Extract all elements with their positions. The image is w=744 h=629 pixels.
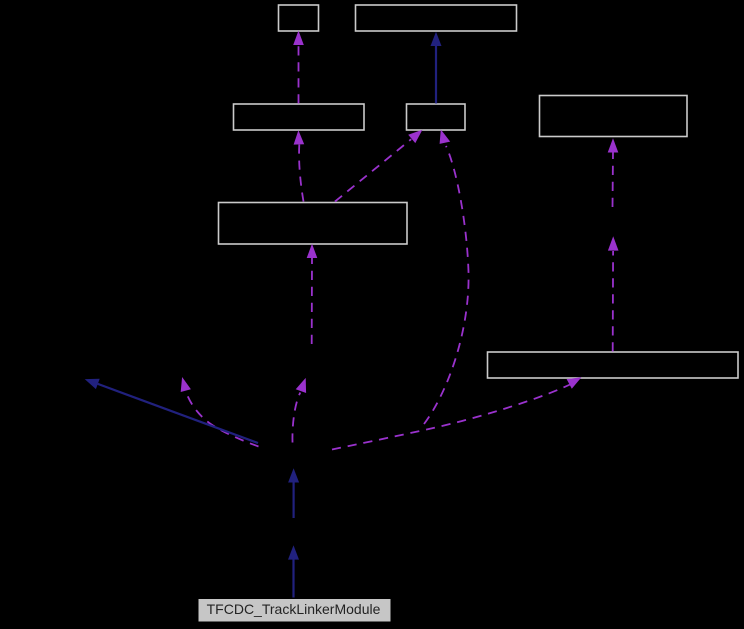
- edge hidden row4 to F (dashed): [311, 258, 313, 344]
- node G (row4 right wide box): [488, 352, 739, 378]
- svg-text:TFCDC_TrackLinkerModule: TFCDC_TrackLinkerModule: [207, 601, 381, 617]
- edge hub to G (long dashed shallow curve): [332, 385, 570, 450]
- node C (row2 left box): [234, 104, 365, 130]
- arrowhead H to hidden row6: [288, 545, 299, 559]
- edge hidden row3 to E (dashed): [612, 153, 615, 208]
- arrowhead hidden row3 to E: [608, 138, 619, 152]
- arrowhead G to hidden row3: [608, 236, 619, 250]
- edge C to A (dashed): [298, 45, 300, 104]
- edge F to D (dashed diagonal): [335, 139, 411, 201]
- arrowhead hub to D: [440, 130, 451, 144]
- arrowhead hidden row6 to hub: [288, 468, 299, 482]
- node E (row2 right tall box): [540, 96, 688, 137]
- arrowhead hub to G: [567, 377, 582, 389]
- node B (top wide box): [356, 5, 517, 31]
- node D (row2 middle box): [407, 104, 466, 130]
- edge D to B (solid inheritance): [435, 45, 437, 104]
- arrowhead C to A: [293, 31, 304, 45]
- edge G to hidden row3 node (dashed): [612, 251, 614, 352]
- edge hidden row6 to hub (solid): [293, 482, 295, 518]
- node F (row3 wide box): [219, 203, 408, 245]
- edge hub to D (long dashed curve right): [424, 146, 469, 424]
- arrowhead F to C: [294, 130, 305, 144]
- edge hub to hidden row4-left (dashed curve): [186, 392, 259, 447]
- node A (top small box): [279, 5, 319, 31]
- arrowhead F to D: [408, 130, 422, 143]
- arrowhead hub to hidden row4: [296, 378, 306, 393]
- arrowhead hub to hidden row4-left: [181, 377, 191, 392]
- arrowhead D to B: [431, 32, 442, 46]
- edge hub to hidden row4-far-left (solid inheritance diagonal): [98, 384, 258, 443]
- edge F to C (dashed): [299, 145, 303, 202]
- arrowhead hub to far-left: [85, 379, 100, 389]
- node H (TFCDC_TrackLinkerModule main box): [198, 599, 391, 623]
- edge hub to hidden row4 (dashed slight curve): [292, 393, 300, 443]
- edge H to hidden row6 (solid): [292, 560, 294, 598]
- arrowhead hidden row4 to F: [307, 244, 318, 258]
